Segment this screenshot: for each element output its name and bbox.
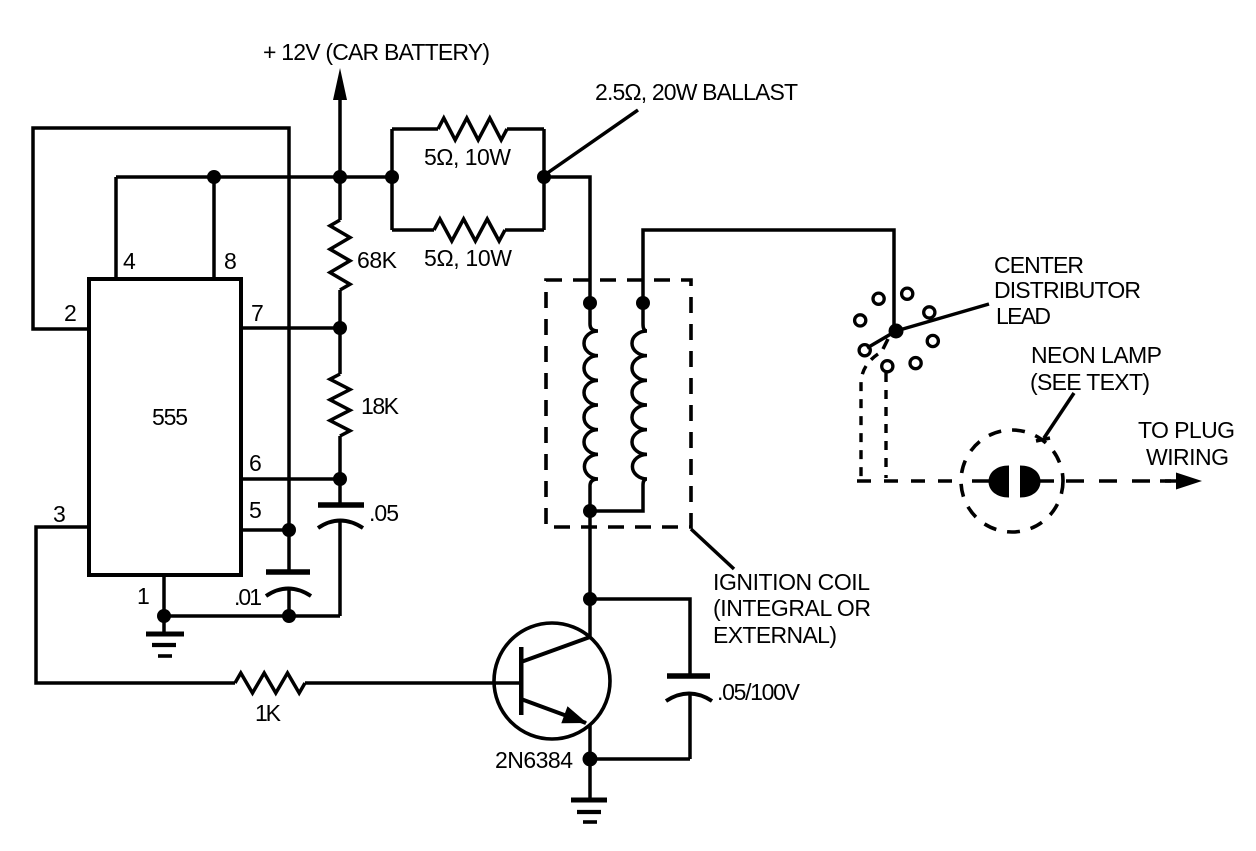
svg-text:7: 7 <box>251 300 264 326</box>
resistor 5ohm 10W top <box>392 127 438 131</box>
node cap .01 junction <box>282 609 296 623</box>
svg-text:LEAD: LEAD <box>996 303 1051 329</box>
inductor primary <box>584 303 598 511</box>
wire pin 7 <box>241 326 340 330</box>
wire pin 8 lead <box>212 177 216 279</box>
svg-text:68K: 68K <box>357 247 398 273</box>
svg-text:3: 3 <box>53 501 66 527</box>
wire secondary to distributor <box>643 230 894 331</box>
svg-text:NEON LAMP: NEON LAMP <box>1031 342 1162 368</box>
svg-text:(INTEGRAL OR: (INTEGRAL OR <box>713 595 871 621</box>
wire pin 1 lead <box>162 575 166 616</box>
distributor contact 7 <box>855 315 866 326</box>
svg-text:2N6384: 2N6384 <box>495 747 573 773</box>
wire collector to cap <box>590 599 690 675</box>
IC 555 <box>89 279 241 575</box>
node pin7 junction <box>333 321 347 335</box>
dashed wire to neon lamp <box>857 479 960 483</box>
distributor rotor line <box>867 331 896 348</box>
svg-text:2.5Ω, 20W BALLAST: 2.5Ω, 20W BALLAST <box>595 79 798 105</box>
svg-text:.05: .05 <box>369 500 399 526</box>
svg-text:(SEE TEXT): (SEE TEXT) <box>1030 369 1150 395</box>
resistor 68K <box>338 177 342 220</box>
distributor center dot <box>889 324 904 339</box>
inductor secondary <box>632 303 647 485</box>
node +12V junction <box>333 170 347 184</box>
svg-text:1: 1 <box>137 583 150 609</box>
node emitter junction <box>583 752 598 767</box>
wire ground rail <box>164 614 340 618</box>
svg-text:+ 12V (CAR BATTERY): + 12V (CAR BATTERY) <box>263 39 490 65</box>
callout line center distributor lead <box>896 304 989 331</box>
svg-text:2: 2 <box>64 300 77 326</box>
svg-text:4: 4 <box>123 248 136 274</box>
node pin8 junction <box>207 170 221 184</box>
transistor Q1 2N6384 <box>494 623 610 739</box>
wire ballast to coil <box>544 177 590 303</box>
callout line neon lamp <box>1044 393 1074 438</box>
resistor 5ohm 10W bottom <box>392 228 434 232</box>
dashed lead from rotor (right) <box>884 373 887 478</box>
capacitor .05 <box>338 479 342 504</box>
distributor rotor stub <box>883 339 888 349</box>
neon lamp dashed circle <box>961 430 1063 532</box>
neon lamp left lead <box>972 479 991 483</box>
resistor ballast pair frame <box>390 129 394 230</box>
svg-text:.01: .01 <box>234 584 262 610</box>
wire emitter rail <box>590 757 690 761</box>
svg-text:TO PLUG: TO PLUG <box>1138 417 1235 443</box>
svg-text:6: 6 <box>249 450 262 476</box>
wire main +V rail y=177 <box>116 175 392 179</box>
svg-text:CENTER: CENTER <box>994 252 1084 278</box>
svg-text:DISTRIBUTOR: DISTRIBUTOR <box>994 277 1141 303</box>
node coil primary top <box>583 296 597 310</box>
dashed lead from rotor (left) <box>861 354 878 478</box>
distributor contact 3 <box>924 307 935 318</box>
capacitor .01 <box>287 530 291 571</box>
wire base lead <box>305 681 519 685</box>
neon lamp right lead <box>1038 479 1054 483</box>
ignition coil dashed box <box>546 280 691 527</box>
svg-text:.05/100V: .05/100V <box>717 679 801 705</box>
wire coil to collector <box>588 511 592 637</box>
node ballast left junction <box>385 170 399 184</box>
svg-text:EXTERNAL): EXTERNAL) <box>713 622 837 648</box>
wire pin 3 <box>36 527 235 683</box>
wire pin 5 <box>241 528 289 532</box>
wire pin 4 lead <box>114 177 118 279</box>
svg-text:IGNITION COIL: IGNITION COIL <box>713 569 870 595</box>
distributor contact 1 <box>873 293 884 304</box>
ground under emitter <box>588 759 592 798</box>
resistor 1K <box>235 673 305 693</box>
callout line ignition coil <box>691 529 734 569</box>
node collector junction <box>583 592 597 606</box>
callout line ballast <box>546 110 638 174</box>
wire pin 6 <box>241 477 340 481</box>
ground under pin 1 <box>162 616 166 633</box>
resistor 18K <box>338 328 342 374</box>
distributor contact 5 <box>910 358 921 369</box>
wire emitter <box>588 725 592 759</box>
neon lamp left electrode <box>989 466 1010 498</box>
dashed wire lamp to plug <box>1066 479 1171 483</box>
distributor contact 8 <box>859 345 870 356</box>
svg-text:WIRING: WIRING <box>1146 444 1229 470</box>
wire outer loop pin2 to pin5 <box>33 128 289 530</box>
distributor contact 6 <box>882 361 893 372</box>
node pin5 junction <box>282 523 296 537</box>
svg-text:555: 555 <box>152 404 188 430</box>
svg-text:5Ω, 10W: 5Ω, 10W <box>424 144 511 170</box>
node pin6 junction <box>333 472 347 486</box>
distributor contact 4 <box>927 335 938 346</box>
svg-text:18K: 18K <box>361 393 400 419</box>
neon lamp right electrode <box>1020 466 1041 498</box>
node pin1 junction <box>157 609 171 623</box>
arrow to plug wiring <box>1160 479 1180 483</box>
svg-text:1K: 1K <box>255 700 282 726</box>
svg-text:5: 5 <box>249 497 262 523</box>
node coil secondary top <box>636 296 650 310</box>
distributor contact 2 <box>902 288 913 299</box>
node coil bottom junction <box>583 504 597 518</box>
node ballast right junction <box>537 170 551 184</box>
svg-text:5Ω, 10W: 5Ω, 10W <box>424 245 512 271</box>
svg-text:8: 8 <box>224 248 237 274</box>
power +12V arrow <box>338 95 342 177</box>
capacitor .05/100V <box>667 673 710 679</box>
